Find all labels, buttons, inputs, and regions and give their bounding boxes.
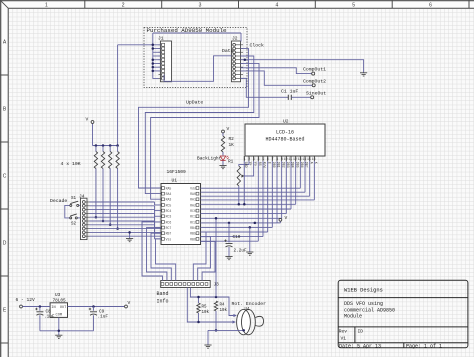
svg-text:U1: U1 <box>172 178 178 184</box>
svg-text:5: 5 <box>352 3 355 9</box>
svg-text:DB3: DB3 <box>286 162 290 168</box>
svg-text:10: 10 <box>284 157 288 161</box>
svg-text:R2: R2 <box>229 137 235 142</box>
svg-text:V: V <box>227 126 230 132</box>
svg-text:4: 4 <box>276 3 279 9</box>
svg-text:RB5: RB5 <box>190 232 196 236</box>
svg-text:RA1: RA1 <box>190 198 196 202</box>
svg-text:V+: V+ <box>249 162 253 166</box>
svg-text:Clock: Clock <box>250 43 265 49</box>
svg-text:CompOut2: CompOut2 <box>303 78 326 84</box>
svg-text:2: 2 <box>248 157 250 161</box>
svg-text:RC0: RC0 <box>190 209 196 213</box>
svg-text:10k: 10k <box>220 308 228 313</box>
svg-text:RA3: RA3 <box>166 198 172 202</box>
svg-text:A: A <box>309 162 313 164</box>
svg-text:BackLight: BackLight <box>197 155 222 161</box>
svg-text:RB7: RB7 <box>166 232 172 236</box>
svg-text:V1: V1 <box>341 336 347 342</box>
svg-text:1K: 1K <box>229 143 235 148</box>
svg-text:HD44780-Based: HD44780-Based <box>265 137 304 143</box>
svg-text:RA4: RA4 <box>166 192 172 196</box>
svg-text:RC6: RC6 <box>166 220 172 224</box>
svg-text:Decade: Decade <box>50 198 67 204</box>
svg-text:J1: J1 <box>158 36 164 42</box>
svg-text:2.2uF: 2.2uF <box>234 249 248 254</box>
svg-text:R4: R4 <box>220 304 226 308</box>
svg-text:3: 3 <box>199 3 202 9</box>
svg-text:11: 11 <box>288 157 292 161</box>
svg-text:R/W: R/W <box>263 162 267 168</box>
svg-text:10k: 10k <box>202 310 210 315</box>
svg-text:2: 2 <box>122 3 125 9</box>
svg-text:RC2: RC2 <box>190 220 196 224</box>
svg-text:DB4: DB4 <box>291 162 295 168</box>
svg-text:RC5: RC5 <box>166 203 172 207</box>
svg-text:RC4: RC4 <box>166 209 172 213</box>
svg-text:8: 8 <box>276 157 278 161</box>
svg-text:6: 6 <box>267 157 269 161</box>
svg-text:COM: COM <box>56 314 62 318</box>
svg-text:7: 7 <box>272 157 274 161</box>
svg-text:Vdd: Vdd <box>190 186 196 190</box>
svg-text:C1 1uF: C1 1uF <box>281 89 298 95</box>
svg-text:Rot. Encoder: Rot. Encoder <box>232 301 267 307</box>
svg-text:V: V <box>285 215 288 221</box>
svg-text:DB5: DB5 <box>295 162 299 168</box>
svg-text:RA0: RA0 <box>190 192 196 196</box>
svg-text:V: V <box>128 300 131 306</box>
svg-text:RA5: RA5 <box>166 186 172 190</box>
svg-text:16F1509: 16F1509 <box>167 169 187 175</box>
svg-text:UpDate: UpDate <box>186 100 203 106</box>
svg-text:6: 6 <box>429 3 432 9</box>
svg-text:D: D <box>3 241 7 247</box>
svg-text:CompOut1: CompOut1 <box>303 67 326 73</box>
svg-text:Date: 5 Apr 13: Date: 5 Apr 13 <box>339 343 381 349</box>
svg-text:RC3: RC3 <box>166 215 172 219</box>
svg-text:LCD-16: LCD-16 <box>276 130 294 136</box>
svg-text:1: 1 <box>244 157 246 161</box>
svg-text:Info: Info <box>157 299 169 305</box>
svg-text:R5: R5 <box>202 306 208 310</box>
svg-text:.1uF: .1uF <box>44 315 55 320</box>
svg-text:DB1: DB1 <box>277 162 281 168</box>
svg-text:commercial AD9850: commercial AD9850 <box>344 307 395 313</box>
svg-text:J4: J4 <box>79 194 85 200</box>
svg-text:C10: C10 <box>233 235 241 240</box>
svg-text:U3: U3 <box>55 293 61 298</box>
svg-text:DB2: DB2 <box>281 162 285 168</box>
svg-text:RA2: RA2 <box>190 203 196 207</box>
svg-text:1: 1 <box>45 3 48 9</box>
svg-text:DB0: DB0 <box>272 162 276 168</box>
svg-text:Rev: Rev <box>339 329 348 335</box>
svg-text:Page: 1 of 1: Page: 1 of 1 <box>406 343 442 349</box>
svg-text:6 - 12V: 6 - 12V <box>16 297 36 303</box>
svg-text:GND: GND <box>244 162 248 168</box>
svg-text:J2: J2 <box>232 36 238 42</box>
svg-text:RB6: RB6 <box>190 237 196 241</box>
svg-text:Module: Module <box>344 314 362 320</box>
svg-text:RS: RS <box>258 162 262 166</box>
svg-text:Band: Band <box>157 291 169 297</box>
svg-text:IN: IN <box>51 306 55 310</box>
svg-text:Vo: Vo <box>253 162 257 166</box>
svg-text:J3: J3 <box>214 283 220 288</box>
svg-text:E: E <box>267 162 271 164</box>
svg-text:14: 14 <box>302 157 306 161</box>
svg-text:78L05: 78L05 <box>53 299 67 304</box>
svg-text:16: 16 <box>312 157 316 161</box>
svg-text:K: K <box>314 162 318 164</box>
svg-text:DDS VFO using: DDS VFO using <box>344 301 383 307</box>
svg-text:5: 5 <box>262 157 264 161</box>
svg-text:ID: ID <box>358 329 364 335</box>
svg-text:4 x 10K: 4 x 10K <box>61 161 81 167</box>
svg-text:R1: R1 <box>228 160 234 165</box>
svg-text:C: C <box>3 174 7 180</box>
svg-text:B: B <box>3 107 7 113</box>
svg-text:RC1: RC1 <box>190 215 196 219</box>
svg-text:3: 3 <box>253 157 255 161</box>
svg-text:U2: U2 <box>283 119 289 125</box>
svg-text:RC7: RC7 <box>166 226 172 230</box>
svg-text:RB4: RB4 <box>190 226 196 230</box>
svg-text:SineOut: SineOut <box>306 90 326 96</box>
svg-text:DB6: DB6 <box>300 162 304 168</box>
svg-text:A: A <box>3 40 7 46</box>
svg-text:.1uF: .1uF <box>98 315 109 320</box>
svg-text:Purchased AD9850 Module: Purchased AD9850 Module <box>147 27 228 34</box>
svg-text:U4: U4 <box>245 308 251 312</box>
svg-text:Vss: Vss <box>166 237 172 241</box>
svg-text:13: 13 <box>298 157 302 161</box>
svg-text:OUT: OUT <box>60 306 67 310</box>
svg-text:15: 15 <box>307 157 311 161</box>
svg-text:DB7: DB7 <box>305 162 309 168</box>
svg-text:V: V <box>86 117 89 123</box>
svg-text:W1EB Designs: W1EB Designs <box>344 288 383 294</box>
svg-text:S1: S1 <box>71 197 77 201</box>
svg-text:S2: S2 <box>71 223 77 227</box>
svg-text:9: 9 <box>281 157 283 161</box>
svg-text:E: E <box>3 308 7 314</box>
svg-text:Data: Data <box>222 48 234 54</box>
svg-text:12: 12 <box>293 157 297 161</box>
svg-text:4: 4 <box>258 157 260 161</box>
